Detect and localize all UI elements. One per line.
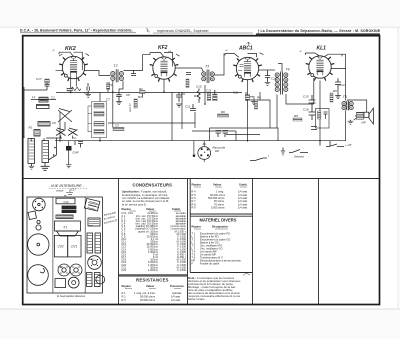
svg-text:C16: C16 <box>271 77 277 81</box>
svg-text:+c: +c <box>168 49 172 53</box>
svg-text:T5: T5 <box>343 95 347 99</box>
svg-text:Valeur: Valeur <box>146 284 155 288</box>
svg-text:C17: C17 <box>71 189 76 192</box>
svg-text:C22: C22 <box>121 268 126 272</box>
svg-text:ABC1: ABC1 <box>238 45 253 51</box>
svg-text:R 1: R 1 <box>122 291 127 295</box>
svg-text:R2: R2 <box>139 87 143 91</box>
svg-text:L1: L1 <box>32 95 36 99</box>
svg-text:C8: C8 <box>126 93 130 97</box>
svg-text:C10: C10 <box>196 85 202 89</box>
svg-text:HP: HP <box>215 149 219 153</box>
svg-text:Subdi.: Subdi. <box>172 207 181 211</box>
svg-text:basse torque.: basse torque. <box>188 297 206 301</box>
svg-text:masse: masse <box>56 190 64 193</box>
svg-text:C4: C4 <box>84 91 88 95</box>
svg-text:KK2: KK2 <box>65 46 76 52</box>
svg-text:CV1: CV1 <box>71 245 77 249</box>
svg-text:R1: R1 <box>29 126 33 130</box>
svg-text:- VUE INTERIEURE -: - VUE INTERIEURE - <box>49 184 85 188</box>
svg-text:50.000 ohms: 50.000 ohms <box>140 294 156 298</box>
svg-text:C7: C7 <box>106 98 110 102</box>
svg-text:1/4 watt: 1/4 watt <box>171 294 180 298</box>
svg-text:CONDENSATEURS: CONDENSATEURS <box>133 183 173 188</box>
svg-text:R3: R3 <box>138 95 142 99</box>
svg-text:F 1.500: F 1.500 <box>177 268 186 272</box>
svg-text:R 2: R 2 <box>122 294 127 298</box>
svg-text:Secteur: Secteur <box>294 155 305 159</box>
svg-text:R8: R8 <box>294 114 298 118</box>
svg-text:HP: HP <box>362 121 366 125</box>
svg-text:5.000 ohms: 5.000 ohms <box>211 206 225 210</box>
svg-text:KL1: KL1 <box>89 257 94 261</box>
svg-text:et en service pour E.: et en service pour E. <box>122 202 147 206</box>
svg-text:KF2: KF2 <box>58 265 63 269</box>
svg-text:CV2: CV2 <box>58 245 64 249</box>
svg-text:R 3: R 3 <box>122 298 127 302</box>
svg-text:Subdi.: Subdi. <box>239 183 248 187</box>
svg-text:vers T.I: vers T.I <box>128 103 132 112</box>
svg-text:CHF: CHF <box>73 151 79 155</box>
svg-text:Fusible du cadre.: Fusible du cadre. <box>200 261 220 265</box>
svg-text:C11: C11 <box>206 89 212 93</box>
svg-text:C15: C15 <box>303 95 309 99</box>
svg-text:spéciale: spéciale <box>172 291 182 295</box>
svg-text:Ingénieurs CHANZEL, Superwel: Ingénieurs CHANZEL, Superwel <box>157 29 209 33</box>
svg-text:R 9: R 9 <box>192 206 197 210</box>
svg-text:T1: T1 <box>109 83 113 87</box>
svg-text:Repère: Repère <box>122 284 132 288</box>
svg-text:1/4 watt: 1/4 watt <box>238 206 247 210</box>
svg-text:Puissance: Puissance <box>170 284 184 288</box>
svg-text:R4: R4 <box>194 94 198 98</box>
svg-text:Repère: Repère <box>192 225 202 229</box>
svg-text:MATERIEL DIVERS: MATERIEL DIVERS <box>200 218 237 223</box>
svg-text:20.000 ohms: 20.000 ohms <box>140 298 156 302</box>
svg-text:C16: C16 <box>303 108 309 112</box>
svg-text:C5: C5 <box>115 124 119 128</box>
svg-text:C9: C9 <box>181 92 185 96</box>
svg-text:C11: C11 <box>233 91 239 95</box>
svg-text:T2: T2 <box>114 64 118 68</box>
svg-text:1.000cm: 1.000cm <box>148 268 158 272</box>
svg-text:Valeur: Valeur <box>213 183 222 187</box>
svg-text:Valeur: Valeur <box>146 207 155 211</box>
svg-text:le haut-parleur dessous: le haut-parleur dessous <box>57 294 86 298</box>
svg-text:C17: C17 <box>36 77 42 81</box>
svg-text:Désignation: Désignation <box>212 225 228 229</box>
svg-text:KL1: KL1 <box>317 45 327 51</box>
svg-text:KF2: KF2 <box>158 45 168 51</box>
svg-text:RESISTANCES: RESISTANCES <box>136 278 169 283</box>
svg-text:Repère: Repère <box>192 183 202 187</box>
svg-text:1/4 watt: 1/4 watt <box>171 298 180 302</box>
svg-text:D.C.A. - 16, Boulevard Voltair: D.C.A. - 16, Boulevard Voltaire, Paris, … <box>20 29 133 33</box>
svg-text:R5: R5 <box>257 96 261 100</box>
svg-text:C10: C10 <box>64 200 69 204</box>
svg-text:C2: C2 <box>72 136 76 140</box>
svg-text:C1: C1 <box>51 96 55 100</box>
svg-text:A: A <box>22 135 25 139</box>
svg-text:+ HT: + HT <box>345 143 353 147</box>
svg-text:( La Documentation du Dépanneu: ( La Documentation du Dépanneur-Radio, —… <box>258 29 381 33</box>
svg-text:C6: C6 <box>52 121 56 125</box>
svg-text:Repère: Repère <box>122 207 132 211</box>
svg-text:R9: R9 <box>333 89 337 93</box>
svg-text:T3: T3 <box>205 65 209 69</box>
svg-text:C14: C14 <box>339 83 345 87</box>
svg-text:R6: R6 <box>221 110 225 114</box>
svg-text:T.I: T.I <box>63 226 67 230</box>
svg-text:T4: T4 <box>286 68 290 72</box>
svg-text:1 még. pot. à inter.: 1 még. pot. à inter. <box>134 291 156 295</box>
svg-text:C11: C11 <box>185 105 191 109</box>
